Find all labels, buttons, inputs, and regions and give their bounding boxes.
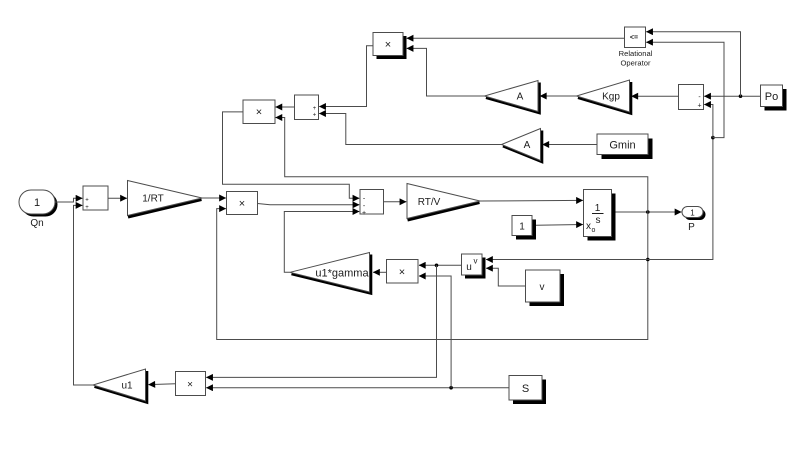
svg-text:1: 1 [519, 222, 525, 233]
wire gain RT/V to integrator U1 [480, 199, 583, 202]
svg-text:o: o [592, 227, 596, 234]
svg-text:+: + [85, 205, 89, 211]
svg-text:Gmin: Gmin [609, 140, 635, 152]
wire Po to sum S4 minus input [704, 95, 760, 97]
constant block v [526, 270, 565, 306]
svg-text:u1: u1 [121, 381, 133, 392]
svg-text:+: + [313, 113, 317, 119]
node P feedback junction mid [646, 258, 650, 262]
wire product X4 to gain u1gamma [373, 271, 386, 273]
wire constant S to product X5 [206, 387, 509, 389]
sum S2 [295, 95, 319, 120]
svg-text:×: × [239, 198, 245, 210]
node Po junction [739, 94, 743, 98]
wire sum S2 to product X2 [276, 106, 295, 108]
outport oval P [682, 207, 706, 234]
math function uv [462, 254, 486, 279]
wire gain A2 to sum S2 [319, 114, 501, 145]
svg-text:Operator: Operator [621, 58, 651, 67]
wire uv junction down to product X5 [206, 265, 436, 377]
svg-text:Qn: Qn [30, 218, 43, 229]
svg-text:A: A [517, 92, 524, 103]
svg-text:×: × [256, 107, 262, 119]
constant block 1 [512, 216, 536, 240]
svg-text:×: × [399, 266, 405, 278]
gain A2 [502, 129, 542, 162]
wire product X5 to gain u1 [149, 383, 176, 386]
wire sum S1 to gain 1/RT [108, 197, 127, 199]
gain RT/V [407, 184, 480, 221]
wire constant 1 to integrator U1 [536, 224, 583, 227]
node P feedback junction on output wire [646, 210, 650, 214]
svg-text:A: A [524, 140, 531, 151]
gain u1 [93, 369, 147, 402]
wire P feedback down and around to product X3 [217, 209, 648, 340]
gain Kgp [577, 80, 631, 113]
svg-text:1: 1 [690, 209, 695, 218]
wire gain u1gamma to sum S3 [284, 212, 359, 273]
svg-text:×: × [385, 39, 391, 51]
product X5 [176, 372, 206, 396]
wire Gmin to gain A2 [543, 144, 598, 146]
wire sum S3 to gain RT/V [384, 201, 407, 203]
svg-text:Relational: Relational [619, 49, 653, 58]
wire gain A1 to product X1 [407, 48, 485, 96]
wire Qn to sum S1 [55, 198, 82, 202]
wire gain u1 to sum S1 [74, 205, 94, 385]
product X1 [373, 33, 407, 60]
gain A1 [485, 81, 540, 113]
svg-text:+: + [313, 106, 317, 112]
svg-text:v: v [540, 282, 545, 293]
wire gain Kgp to gain A1 [540, 95, 577, 97]
svg-text:u1*gamma: u1*gamma [315, 268, 369, 280]
svg-text:+: + [85, 198, 89, 204]
wire product X1 to sum S2 [319, 46, 373, 107]
svg-text:x: x [586, 221, 591, 232]
svg-text:Kgp: Kgp [602, 92, 620, 103]
svg-text:v: v [474, 257, 478, 266]
wire product X2 to sum S3 [223, 112, 360, 198]
svg-text:s: s [596, 215, 601, 226]
product X2 [243, 100, 275, 124]
wire sum S4 to gain Kgp [632, 95, 679, 97]
wire junction to sum S4 plus input [704, 105, 713, 138]
svg-text:1/RT: 1/RT [142, 194, 164, 205]
svg-text:P: P [688, 222, 695, 233]
wire P feedback up to product X2 [276, 118, 648, 213]
constant block Po [761, 85, 787, 111]
sum S3 [360, 190, 384, 217]
wire gain 1/RT to product X3 [202, 197, 226, 199]
svg-text:<=: <= [630, 35, 638, 42]
wire integrator U1 to outport P [616, 211, 682, 213]
wire relational operator to product X1 [407, 37, 625, 39]
svg-text:1: 1 [595, 203, 601, 214]
gain u1gamma [290, 253, 371, 294]
svg-text:+: + [697, 102, 701, 109]
svg-text:1: 1 [34, 197, 40, 209]
product X3 [227, 192, 258, 215]
wire P feedback right and up [648, 138, 713, 260]
inport oval Qn [19, 190, 58, 229]
wire junction to relational operator input 2 [646, 42, 724, 137]
svg-text:u: u [466, 262, 472, 273]
svg-text:S: S [522, 383, 529, 395]
wire product X3 to sum S3 [258, 204, 360, 205]
svg-text:+: + [362, 210, 366, 217]
wire Po junction to relational operator input 1 [646, 32, 740, 97]
constant block S [509, 376, 546, 405]
wire P feedback to math function uv [486, 259, 648, 261]
constant block Gmin [597, 134, 653, 159]
node junction right riser [711, 136, 715, 140]
wire constant v to math uv [486, 268, 525, 286]
product X4 [387, 260, 419, 284]
wire math uv to product X4 [419, 264, 462, 266]
sum S4 [679, 85, 704, 110]
relational operator [619, 27, 653, 67]
node S junction [449, 386, 453, 390]
svg-text:×: × [187, 380, 193, 391]
svg-text:RT/V: RT/V [418, 197, 441, 208]
node uv output junction [435, 264, 439, 268]
wire S junction up to product X4 [419, 276, 451, 388]
svg-text:Po: Po [765, 91, 778, 103]
integrator U1 [584, 190, 616, 241]
gain 1/RT [128, 181, 203, 218]
sum S1 [83, 186, 108, 211]
